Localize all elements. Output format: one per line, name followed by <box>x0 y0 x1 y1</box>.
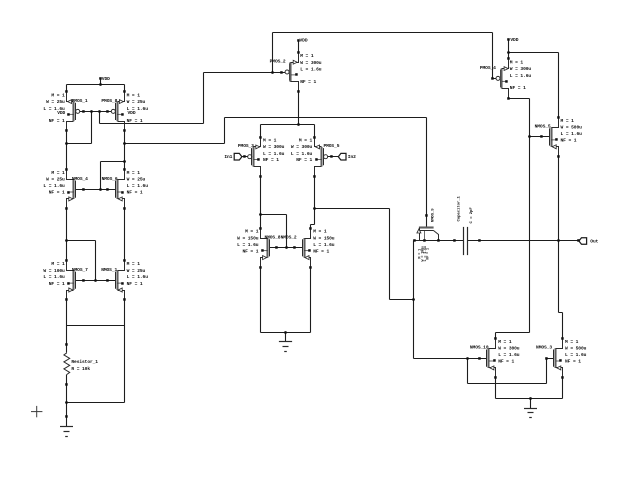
svg-text:PMOS_8: PMOS_8 <box>101 98 117 104</box>
svg-text:W = 25u: W = 25u <box>127 99 146 105</box>
svg-text:PMOS_2: PMOS_2 <box>270 59 286 65</box>
svg-text:L = 1.6u: L = 1.6u <box>498 352 520 358</box>
svg-text:L = 1.6u: L = 1.6u <box>291 151 313 157</box>
svg-text:NMOS_4: NMOS_4 <box>72 176 88 182</box>
svg-text:NF = 1: NF = 1 <box>127 281 143 287</box>
svg-text:NMOS_7: NMOS_7 <box>72 267 88 273</box>
svg-text:NF = 1: NF = 1 <box>561 138 577 144</box>
svg-text:PMOS_4: PMOS_4 <box>480 65 496 71</box>
svg-text:Resistor_1: Resistor_1 <box>71 359 98 365</box>
svg-text:PMOS_5: PMOS_5 <box>323 143 339 149</box>
svg-text:NF = 1: NF = 1 <box>49 281 65 287</box>
svg-text:L = 1.6u: L = 1.6u <box>561 131 583 137</box>
svg-text:M = 1: M = 1 <box>51 170 65 176</box>
svg-text:L = 1.6u: L = 1.6u <box>237 242 259 248</box>
svg-text:NMOS_1: NMOS_1 <box>101 267 117 273</box>
svg-text:NMOS_10: NMOS_10 <box>470 345 489 351</box>
svg-text:R = 10k: R = 10k <box>71 366 90 372</box>
svg-text:M = 1: M = 1 <box>127 93 141 99</box>
svg-text:W = 25u: W = 25u <box>127 177 146 183</box>
svg-text:Out: Out <box>590 238 598 244</box>
svg-text:VDD: VDD <box>300 38 308 44</box>
svg-text:NF = 1: NF = 1 <box>242 248 258 254</box>
svg-text:NF = 1: NF = 1 <box>127 118 143 124</box>
svg-text:M = 1: M = 1 <box>313 229 327 235</box>
svg-text:L = 1.6u: L = 1.6u <box>127 274 149 280</box>
svg-text:W = 25u: W = 25u <box>46 99 65 105</box>
svg-text:W = 300u: W = 300u <box>291 144 313 150</box>
svg-text:NF = 1: NF = 1 <box>296 157 312 163</box>
svg-text:Capacitor_1: Capacitor_1 <box>457 195 462 221</box>
svg-text:NMOS_9: NMOS_9 <box>431 208 435 223</box>
svg-text:M = 1: M = 1 <box>127 170 141 176</box>
svg-text:NF = 1: NF = 1 <box>313 248 329 254</box>
svg-text:PMOS_3: PMOS_3 <box>238 143 254 149</box>
svg-text:M = 1: M = 1 <box>51 261 65 267</box>
svg-text:M = 1: M = 1 <box>510 60 524 66</box>
svg-text:NF = 1: NF = 1 <box>565 359 581 365</box>
svg-text:NF = 1: NF = 1 <box>300 79 316 85</box>
svg-text:NF = 1: NF = 1 <box>127 190 143 196</box>
svg-text:W = 500u: W = 500u <box>565 346 587 352</box>
svg-text:W = 25u: W = 25u <box>46 177 65 183</box>
svg-text:NMOS_3: NMOS_3 <box>536 345 552 351</box>
svg-text:W = 150u: W = 150u <box>237 235 259 241</box>
svg-text:L = 1.6u: L = 1.6u <box>43 183 65 189</box>
svg-text:NF = 1: NF = 1 <box>498 359 514 365</box>
svg-text:L = 1.6u: L = 1.6u <box>127 183 149 189</box>
svg-text:VDD: VDD <box>128 110 136 116</box>
svg-text:NF = 1: NF = 1 <box>263 157 279 163</box>
svg-text:L = 1.6u: L = 1.6u <box>313 242 335 248</box>
svg-text:L = 1.6u: L = 1.6u <box>43 274 65 280</box>
svg-text:PMOS_1: PMOS_1 <box>72 98 88 104</box>
svg-text:NMOS_6: NMOS_6 <box>102 176 118 182</box>
svg-text:W = 300u: W = 300u <box>498 346 520 352</box>
svg-text:VDD: VDD <box>510 37 518 43</box>
svg-text:NMOS_5: NMOS_5 <box>535 124 551 130</box>
svg-text:W = 500u: W = 500u <box>561 125 583 131</box>
svg-text:W = 300u: W = 300u <box>510 66 532 72</box>
svg-text:L = 1.6u: L = 1.6u <box>565 352 587 358</box>
svg-text:M = 1: M = 1 <box>561 118 575 124</box>
svg-text:NF = 1: NF = 1 <box>510 85 526 91</box>
svg-text:M = 1: M = 1 <box>245 229 259 235</box>
svg-text:VDD: VDD <box>57 110 65 116</box>
svg-text:W = 150u: W = 150u <box>313 235 335 241</box>
svg-text:NF = 1: NF = 1 <box>49 190 65 196</box>
svg-text:NF = 1: NF = 1 <box>427 248 431 260</box>
svg-text:W = 300u: W = 300u <box>263 144 285 150</box>
svg-text:VDD: VDD <box>102 76 110 82</box>
svg-text:L = 1.6u: L = 1.6u <box>300 67 322 73</box>
svg-text:In1: In1 <box>224 154 232 160</box>
svg-text:W = 25u: W = 25u <box>127 268 146 274</box>
svg-text:W = 100u: W = 100u <box>43 268 65 274</box>
svg-text:NMOS_8: NMOS_8 <box>264 234 280 240</box>
svg-text:NMOS_2: NMOS_2 <box>281 234 297 240</box>
svg-text:M = 1: M = 1 <box>299 138 313 144</box>
svg-text:In2: In2 <box>348 154 356 160</box>
svg-text:W = 300u: W = 300u <box>300 60 322 66</box>
svg-text:M = 1: M = 1 <box>263 138 277 144</box>
svg-text:L = 1.6u: L = 1.6u <box>263 151 285 157</box>
svg-text:M = 1: M = 1 <box>300 53 314 59</box>
svg-text:M = 1: M = 1 <box>127 261 141 267</box>
svg-text:C = 2pF: C = 2pF <box>470 207 474 224</box>
svg-text:M = 1: M = 1 <box>498 339 512 345</box>
svg-text:L = 1.6u: L = 1.6u <box>510 73 532 79</box>
svg-text:M = 1: M = 1 <box>565 339 579 345</box>
svg-text:NF = 1: NF = 1 <box>49 118 65 124</box>
svg-text:M = 1: M = 1 <box>51 93 65 99</box>
